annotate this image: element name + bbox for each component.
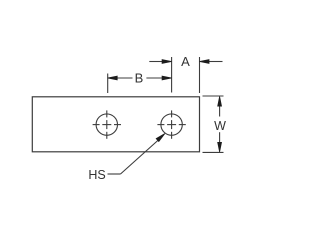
dimension B extension line [107, 74, 109, 94]
hole 2 (right) [157, 110, 185, 138]
svg-text:B: B [135, 71, 144, 86]
dimension A extension lines [172, 57, 200, 93]
svg-text:A: A [181, 54, 190, 69]
dimension B arrows and lines [108, 76, 172, 80]
svg-text:HS: HS [88, 168, 105, 182]
dimension W extension lines [203, 96, 224, 152]
dimension W arrows and lines [218, 97, 222, 152]
HS leader wire [108, 134, 165, 174]
hole 1 (left) [93, 110, 121, 138]
plate outline [32, 97, 199, 152]
dimension A arrows and lines [149, 60, 222, 64]
svg-text:W: W [214, 119, 226, 133]
